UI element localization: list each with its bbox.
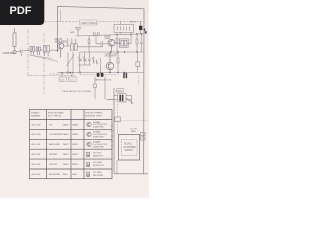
- variable capacitor VC2: [67, 52, 75, 73]
- transistor symbol row3: [87, 142, 91, 146]
- speaker SP diagonal: [126, 98, 133, 104]
- resistor R7: [88, 36, 90, 52]
- svg-text:SUPPLY: SUPPLY: [124, 150, 133, 152]
- dashed unit boundary line: [45, 20, 144, 23]
- svg-text:AMPLIFIER: AMPLIFIER: [49, 143, 60, 146]
- svg-text:UNIT(TMC): UNIT(TMC): [81, 21, 97, 25]
- junction dot chain: [57, 50, 58, 51]
- table header text: [31, 112, 103, 118]
- label UNIT (TMC): [80, 20, 98, 25]
- svg-text:OUTPUT: OUTPUT: [49, 164, 58, 166]
- svg-text:DRIVER: DRIVER: [49, 154, 57, 156]
- svg-text:DIO 1N60: DIO 1N60: [93, 172, 101, 174]
- terminal circle on ground bus: [79, 72, 81, 74]
- svg-text:SW 6V: SW 6V: [130, 22, 137, 24]
- svg-text:2SA 49: 2SA 49: [55, 38, 63, 41]
- battery B1 dark component top right: [139, 21, 142, 34]
- svg-text:VARISTOR 1T23: VARISTOR 1T23: [95, 78, 112, 81]
- PDF badge: [0, 0, 44, 25]
- table row 2: [32, 133, 80, 136]
- diagonal construction line left: [30, 55, 58, 62]
- diode symbol row4: [87, 152, 90, 156]
- switch S1 dark marks: [144, 29, 147, 34]
- row3 symbol text: [93, 141, 108, 149]
- svg-text:2SB75: 2SB75: [63, 164, 70, 166]
- resistor R1: [116, 34, 118, 52]
- row2 symbol text: [93, 131, 108, 139]
- boundary tick: [107, 98, 114, 100]
- rod antenna symbol: [75, 28, 81, 36]
- svg-text:DIO OA70: DIO OA70: [93, 161, 102, 164]
- row4 symbol text: [93, 152, 103, 157]
- dash-dot section line x44: [43, 33, 45, 94]
- junction dots top bus: [116, 33, 142, 35]
- output transformer T6 dark bars: [118, 94, 126, 102]
- svg-text:CIRCUIT SYMBOL: CIRCUIT SYMBOL: [85, 113, 103, 115]
- table row 6: [32, 173, 78, 176]
- loop antenna L1: [13, 28, 16, 51]
- svg-text:AC POWER: AC POWER: [123, 146, 136, 149]
- svg-text:E=EMITTER: E=EMITTER: [93, 127, 104, 129]
- label box earphone: [117, 89, 124, 93]
- resistor R3: [136, 34, 138, 53]
- schematic outer border top: [58, 6, 145, 52]
- junction dots ground bus: [69, 72, 125, 73]
- oscillator coil arrow: [96, 60, 98, 65]
- svg-text:AU-1-181: AU-1-181: [32, 143, 42, 146]
- svg-text:2SA12: 2SA12: [105, 37, 111, 40]
- transistor Q1 RF amplifier: [57, 43, 63, 58]
- row1 symbol text: [93, 121, 108, 129]
- wire output to jack dashed: [116, 104, 118, 135]
- IF transformer T2: [44, 46, 50, 57]
- wire X-box to boundary: [114, 96, 118, 100]
- earphone jack box: [114, 21, 134, 34]
- wires into label boxes: [62, 73, 72, 77]
- wire chain: [35, 46, 103, 50]
- svg-text:2SB75: 2SB75: [72, 164, 79, 166]
- svg-text:E=EMITTER: E=EMITTER: [93, 146, 104, 148]
- boundary ticks: [111, 126, 115, 146]
- svg-text:LOOP ANT: LOOP ANT: [3, 52, 16, 55]
- svg-text:AU-1-201: AU-1-201: [32, 153, 42, 156]
- svg-text:DETECTOR: DETECTOR: [93, 165, 104, 167]
- wire gang to ground terminal: [79, 65, 81, 72]
- svg-text:1N60: 1N60: [63, 174, 69, 176]
- svg-text:2SB77: 2SB77: [63, 154, 70, 156]
- connector pins right border: [141, 133, 146, 141]
- bus ground: [58, 72, 145, 74]
- tick on dashed line: [60, 10, 62, 22]
- table row 4: [32, 153, 80, 156]
- svg-text:OSCILLATOR: OSCILLATOR: [105, 54, 117, 57]
- svg-text:E=EMITTER: E=EMITTER: [93, 137, 104, 139]
- svg-text:AU-1-207: AU-1-207: [32, 173, 42, 176]
- row5 symbol text: [93, 161, 104, 167]
- IF transformer T4: [115, 34, 131, 47]
- svg-text:2SA49: 2SA49: [63, 123, 70, 126]
- dashed section line lower: [27, 74, 118, 76]
- IF transformer T1: [30, 47, 35, 55]
- AC power supply dashed inner box: [121, 140, 137, 156]
- bus mid: [80, 51, 144, 53]
- table row 5: [32, 163, 80, 166]
- oscillator feedback wire: [100, 58, 102, 73]
- wire power box to boundary: [116, 160, 118, 174]
- svg-text:DC(AC): DC(AC): [124, 142, 132, 145]
- svg-text:ANT: ANT: [70, 31, 75, 34]
- capacitor C7: [140, 34, 143, 53]
- svg-text:AU-1-180: AU-1-180: [32, 133, 42, 136]
- svg-text:AU-1-202: AU-1-202: [32, 163, 42, 166]
- svg-text:OSCILLATOR COIL IS FIXED: OSCILLATOR COIL IS FIXED: [62, 90, 91, 93]
- transformer T3: [68, 38, 77, 50]
- diode D2 dark: [101, 73, 104, 77]
- wire diode cluster: [94, 77, 106, 100]
- wire output section: [126, 96, 132, 105]
- diode D1 dark: [97, 73, 100, 77]
- svg-text:(FOR NPN TYPE): (FOR NPN TYPE): [85, 115, 102, 117]
- svg-text:RECTIFIER: RECTIFIER: [49, 174, 60, 176]
- schematic boundary around table right: [114, 88, 148, 174]
- junction dot ground west: [61, 72, 62, 73]
- svg-text:JACK: JACK: [131, 130, 137, 133]
- svg-text:DIO 1T23: DIO 1T23: [93, 152, 101, 154]
- transformer T5 dark bars: [123, 73, 127, 78]
- dash-dot section line x28: [27, 30, 29, 76]
- table row 1: [32, 123, 80, 126]
- bus B+ top: [76, 34, 144, 36]
- dotted leader line above power box: [117, 120, 149, 122]
- tuning gang capacitor VC1: [78, 52, 91, 65]
- AC power supply box U2: [119, 135, 140, 161]
- svg-text:2SB75: 2SB75: [72, 144, 79, 146]
- svg-text:PDF: PDF: [10, 5, 32, 17]
- svg-text:2SB77: 2SB77: [72, 154, 79, 156]
- schematic outer border right: [143, 9, 145, 174]
- diode symbol row5: [87, 162, 90, 167]
- junction dots mid bus: [110, 51, 138, 52]
- capacitor C5 mixer base: [96, 35, 108, 46]
- connector box J1: [115, 117, 121, 122]
- capacitor C2 pair: [36, 47, 40, 55]
- svg-text:VARISTOR: VARISTOR: [93, 154, 103, 157]
- label boxes mid: [59, 77, 76, 81]
- svg-text:2SA12: 2SA12: [63, 133, 70, 136]
- svg-text:NO. TYPE No.: NO. TYPE No.: [48, 115, 62, 117]
- svg-text:AMPLIFIER: AMPLIFIER: [55, 41, 67, 44]
- antenna trimmer C1: [13, 51, 16, 54]
- svg-text:CONVERTER: CONVERTER: [49, 134, 63, 136]
- capacitor C1b series: [21, 50, 22, 57]
- transistor symbol row2: [87, 132, 91, 136]
- oscillator coil arrow b: [92, 57, 94, 64]
- svg-text:2SA49: 2SA49: [72, 123, 79, 126]
- label AC POWER SUPPLY: [123, 142, 136, 152]
- row6 symbol text: [93, 172, 104, 177]
- resistor R6: [136, 52, 140, 73]
- transistor symbol row1: [87, 122, 91, 126]
- parts table: [30, 110, 113, 179]
- svg-text:RECTIFIER: RECTIFIER: [93, 175, 104, 177]
- svg-text:1N60: 1N60: [72, 174, 78, 176]
- ground rail: [30, 55, 52, 59]
- wire antenna to chain: [16, 50, 30, 51]
- page background: [0, 0, 149, 198]
- svg-text:FUNCTION AND: FUNCTION AND: [48, 112, 64, 115]
- svg-text:NUMBER: NUMBER: [31, 115, 41, 117]
- dashed stub below bus: [138, 75, 140, 85]
- trimmer capacitors on bus: [94, 32, 100, 36]
- svg-text:AU-1-128: AU-1-128: [32, 123, 42, 126]
- svg-text:DC 6V: DC 6V: [131, 129, 138, 131]
- table row 3: [32, 143, 80, 146]
- resistor R4: [117, 52, 119, 73]
- svg-text:2SB75: 2SB75: [63, 144, 70, 146]
- svg-text:2SA12: 2SA12: [72, 133, 79, 136]
- diode symbol row6: [87, 172, 90, 176]
- svg-text:SYMBOL: SYMBOL: [31, 113, 41, 115]
- transistor Q2 mixer: [108, 39, 115, 52]
- transistor Q3 local oscillator: [106, 52, 113, 73]
